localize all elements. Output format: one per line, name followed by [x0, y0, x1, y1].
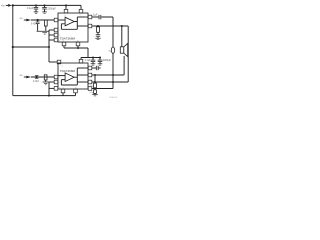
svg-text:0.47µF: 0.47µF: [33, 80, 39, 83]
junction dot stby bus bottom: [48, 95, 50, 97]
wire mid supply rail: [81, 57, 101, 59]
label 0.47uF C3: [31, 22, 37, 25]
svg-text:4: 4: [85, 82, 86, 84]
Vs input arrow terminal: [6, 4, 12, 7]
pin U2 top-left: [57, 60, 61, 64]
junction dot D input node: [36, 19, 38, 21]
svg-text:7: 7: [84, 65, 85, 67]
op-amp U1 triangle: [65, 17, 74, 26]
IN input arrow terminal (top): [24, 19, 31, 22]
resistor R1 (input top): [44, 20, 47, 31]
pin U2 right out1: [88, 73, 92, 77]
junction dot (95,88.5): [94, 88, 96, 90]
wire out1 after C6: [101, 17, 113, 47]
pin U1 bottom-right: [76, 42, 80, 46]
wire U2 out3 inside: [77, 81, 88, 83]
resistor R4 (zobel bottom): [94, 75, 97, 88]
wire left vertical Vs bus: [12, 5, 14, 95]
junction dot (113,82): [112, 81, 114, 83]
svg-text:IN: IN: [20, 75, 23, 77]
junction dot B (left bus / mid branch): [12, 46, 14, 48]
ground (zobel bottom): [92, 94, 98, 96]
svg-text:0.1µ: 0.1µ: [89, 92, 93, 94]
svg-text:Vs: Vs: [1, 4, 5, 8]
svg-text:1µF: 1µF: [93, 14, 98, 16]
wire U2 stby stub1: [49, 81, 54, 83]
pin U1 right out1: [88, 15, 92, 19]
label TDA7266M U1: [60, 36, 76, 40]
pin U1 left stby2: [54, 33, 58, 37]
junction dot C2 rail: [44, 4, 46, 6]
label TDA7266M U2: [60, 69, 76, 73]
ground (under C4): [91, 63, 96, 65]
svg-text:3: 3: [59, 87, 60, 89]
wire U1 input inside: [58, 19, 65, 21]
svg-text:9: 9: [63, 40, 64, 42]
junction dot (78,48): [77, 47, 79, 49]
wire U2 input inside: [58, 75, 65, 77]
label 1uF C6: [93, 14, 98, 16]
wire U2 out2 inside: [77, 74, 88, 76]
svg-text:1: 1: [59, 77, 60, 79]
svg-text:5: 5: [85, 26, 86, 28]
figure code text: [109, 96, 118, 99]
wire vcc pin1: [65, 5, 67, 9]
op-amp IC U1 box TDA7266M: [58, 13, 88, 42]
wire U1 out2 inside: [77, 25, 88, 27]
pin U1 right out2: [88, 24, 92, 28]
svg-text:IN: IN: [20, 18, 23, 20]
ground (under C1): [34, 12, 39, 14]
capacitor C5 2200uF (mid): [98, 58, 103, 64]
ground (input network bottom): [43, 82, 49, 86]
wire vcc pin2: [80, 5, 82, 9]
pin U1 top-left: [64, 9, 68, 13]
wire rail to IC2 vcc pin: [80, 58, 82, 60]
node IN label (top): [20, 18, 23, 20]
IN input arrow terminal (bottom): [24, 76, 31, 79]
junction dot E input node 2: [35, 76, 37, 78]
ground (input network top): [37, 31, 50, 34]
wire IN to IC1: [31, 19, 54, 21]
wire stby bus vertical x49: [48, 30, 50, 62]
ground (under C2): [42, 12, 47, 14]
wire U2 out1 rail: [92, 74, 124, 76]
capacitor C7 (zobel top): [96, 34, 100, 38]
node IN label (bottom): [20, 75, 23, 77]
wire speaker top lead: [121, 26, 123, 47]
svg-text:TDA7266M: TDA7266M: [60, 69, 76, 73]
pin numbers U1: [59, 15, 86, 42]
capacitor C8 0.47uF (input bottom): [35, 75, 39, 78]
pin U2 left stby1: [54, 80, 58, 84]
pin U1 bottom-left: [62, 42, 66, 46]
wire U1 out1 to corner: [92, 16, 99, 18]
label R4: [90, 86, 94, 88]
pin U2 top-right: [79, 59, 83, 63]
svg-text:6: 6: [62, 65, 63, 67]
svg-text:2200µF: 2200µF: [47, 8, 56, 11]
resistor R2 (zobel top): [97, 26, 100, 34]
junction dot C (49,47): [48, 46, 50, 48]
capacitor C10 (zobel bottom): [94, 88, 97, 95]
wire U2 stby stub2: [49, 87, 54, 89]
svg-text:10: 10: [75, 87, 77, 89]
resistor R3 (input bottom): [44, 75, 47, 82]
svg-text:7: 7: [80, 15, 81, 17]
wire U1 out2 rail: [92, 25, 128, 27]
svg-text:8: 8: [85, 68, 86, 70]
wire U1 feedback loop: [61, 17, 77, 29]
junction dot speaker top tap: [121, 25, 123, 27]
wire top supply rail: [13, 4, 81, 6]
pin U1 left IN: [54, 18, 58, 22]
wire U2 cap pin: [92, 67, 96, 69]
pin U2 left stby2: [54, 87, 58, 91]
capacitor C3 0.47uF (input top): [36, 20, 40, 31]
wire stub pin y40: [49, 39, 54, 41]
label C10: [89, 92, 93, 94]
node Vs label: [1, 4, 5, 8]
pin U2 right cap pin: [88, 66, 92, 70]
label 0.47uF C8: [33, 80, 39, 83]
wire stub pin y30: [49, 29, 54, 31]
svg-text:5: 5: [85, 75, 86, 77]
label F1: [108, 50, 111, 52]
op-amp IC U2 box TDA7266M: [58, 63, 88, 89]
ground (under C5): [98, 63, 103, 65]
capacitor C2 2200uF (top): [42, 5, 47, 11]
wire mid branch to IC1 stby pins: [13, 46, 49, 48]
wire Vs to junction: [11, 4, 14, 6]
wire U2 stby bus: [48, 82, 50, 96]
svg-text:10: 10: [77, 40, 79, 42]
svg-text:0.1µF: 0.1µF: [27, 7, 34, 10]
wire U2 out1 inside: [77, 67, 88, 69]
svg-text:6: 6: [65, 15, 66, 17]
pin U2 right out3: [88, 87, 92, 91]
capacitor C6 1uF (out1 top): [99, 15, 102, 19]
wire U2 feedback loop: [61, 68, 77, 85]
svg-text:D99AU1456: D99AU1456: [109, 96, 118, 99]
pin U1 left stby1: [54, 28, 58, 32]
junction dot (95,82): [94, 81, 96, 83]
wire U2 gnd leads: [63, 93, 76, 96]
junction dot C1 rail: [35, 4, 37, 6]
wire U1 out1 inside: [77, 16, 88, 18]
wire to IC2 vcc pin: [49, 61, 57, 63]
wire U2 out3 rail: [92, 88, 113, 90]
wire speaker bottom lead: [123, 56, 125, 75]
pin U2 bottom-right: [74, 89, 78, 93]
label 0.1uF C1: [27, 7, 34, 10]
svg-text:1Ω: 1Ω: [90, 86, 94, 88]
junction dot A (Vs rail): [12, 4, 14, 6]
svg-text:0.1µF: 0.1µF: [85, 59, 91, 62]
pin U2 right out2: [88, 80, 92, 84]
svg-text:8: 8: [85, 17, 86, 19]
speaker LS1: [120, 43, 127, 56]
label 2200uF C5: [103, 59, 112, 62]
wire U1 gnd pins rail: [64, 46, 88, 58]
wire stub pin y35: [49, 34, 54, 36]
junction dot (95,75): [94, 74, 96, 76]
junction dot C4: [92, 57, 94, 59]
op-amp U2 triangle: [65, 73, 74, 82]
svg-text:3: 3: [59, 35, 60, 37]
label 0.1uF C4: [85, 59, 91, 62]
pin U1 top-right: [79, 9, 83, 13]
svg-text:9: 9: [63, 87, 64, 89]
junction dot C5: [99, 57, 101, 59]
label 2200uF C2: [47, 8, 56, 11]
svg-text:0.47µF: 0.47µF: [31, 22, 37, 25]
wire after C9: [99, 67, 101, 69]
svg-text:2: 2: [59, 82, 60, 84]
wire right common vertical: [127, 26, 129, 82]
wire bottom rail: [13, 95, 76, 97]
junction dot (113,75): [112, 74, 114, 76]
pin numbers U2: [59, 65, 86, 89]
svg-text:1: 1: [59, 20, 60, 22]
capacitor C1 0.1uF (top): [34, 5, 39, 11]
pin U1 left stby3: [54, 38, 58, 42]
svg-text:4: 4: [59, 40, 60, 42]
wire IN to IC2: [31, 76, 54, 78]
junction dot vcc pin1: [65, 4, 67, 6]
capacitor C4 0.1uF (mid): [91, 58, 96, 64]
wire U2 out2 rail: [92, 81, 128, 83]
svg-text:1Ω: 1Ω: [108, 50, 111, 52]
fuse F1 (out1 series): [111, 47, 114, 89]
svg-text:2: 2: [59, 30, 60, 32]
pin U2 left IN: [54, 75, 58, 79]
junction dot zobel top tap: [97, 25, 99, 27]
pin U2 bottom-left: [61, 89, 65, 93]
ground (zobel top): [95, 38, 100, 40]
capacitor C9 1uF (U2): [96, 66, 99, 70]
svg-text:2200µF: 2200µF: [103, 59, 112, 62]
